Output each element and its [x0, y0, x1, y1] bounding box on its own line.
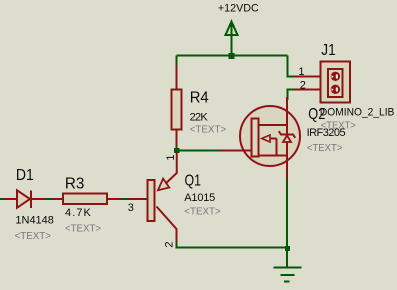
svg-text:4.7K: 4.7K	[65, 207, 92, 219]
svg-text:DOMINO_2_LIB: DOMINO_2_LIB	[320, 107, 395, 119]
svg-text:+12VDC: +12VDC	[218, 3, 259, 15]
svg-text:<TEXT>: <TEXT>	[190, 123, 227, 135]
svg-text:22K: 22K	[190, 111, 209, 123]
svg-text:<TEXT>: <TEXT>	[321, 120, 356, 132]
svg-text:<TEXT>: <TEXT>	[184, 205, 220, 217]
svg-text:<TEXT>: <TEXT>	[15, 230, 51, 242]
svg-text:1: 1	[298, 66, 304, 78]
svg-text:A1015: A1015	[184, 192, 215, 204]
svg-text:2: 2	[164, 241, 176, 247]
svg-text:R3: R3	[65, 176, 85, 193]
svg-text:2: 2	[300, 79, 306, 91]
svg-text:3: 3	[128, 202, 134, 214]
svg-text:1: 1	[165, 154, 177, 160]
svg-text:1N4148: 1N4148	[15, 215, 54, 227]
svg-text:J1: J1	[321, 42, 335, 59]
svg-text:Q1: Q1	[185, 172, 202, 189]
svg-text:D1: D1	[16, 167, 34, 184]
svg-text:<TEXT>: <TEXT>	[65, 223, 101, 235]
svg-text:<TEXT>: <TEXT>	[307, 142, 343, 154]
svg-text:R4: R4	[190, 89, 209, 106]
